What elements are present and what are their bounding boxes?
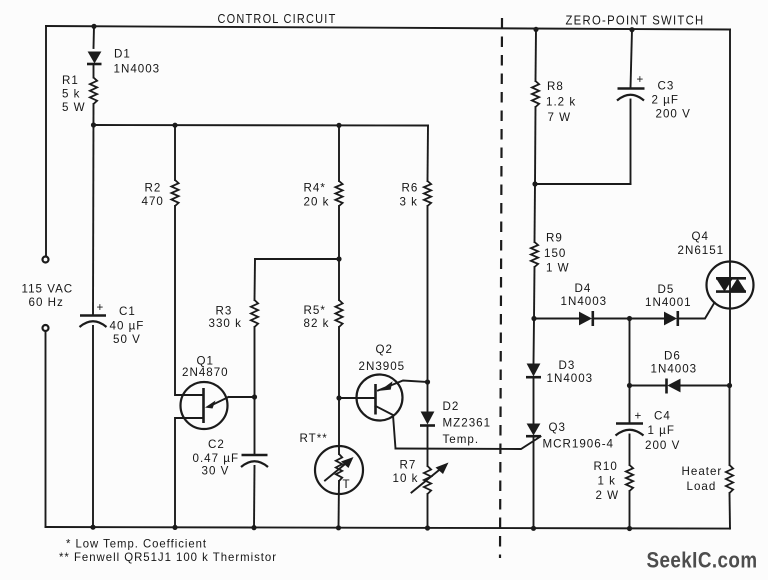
junction Q2 emitter node [425,379,430,384]
wire emitter node to D2 [427,382,429,411]
junction D4-D5 node [627,316,632,321]
junction mid rail R2 [172,123,177,128]
svg-text:10 k: 10 k [393,472,419,485]
wire R10 to bottom rail [629,491,631,529]
resistor R6 [424,181,431,206]
resistor R3 [251,300,258,327]
svg-text:1 k: 1 k [598,475,616,488]
wire node to R9 [534,184,537,242]
svg-text:R1: R1 [62,74,79,87]
svg-text:MCR1906-4: MCR1906-4 [543,438,615,451]
svg-text:330 k: 330 k [209,317,242,330]
wire R6 branch upper [427,126,430,182]
wire R6 to emitter node [427,206,429,382]
wire base node to RT [338,398,340,454]
wire C3 branch top [631,30,633,88]
capacitor C3 [617,73,645,101]
junction D4 anode node [531,316,536,321]
wire D6 cathode link [630,385,667,387]
wire D2 to R7 [427,426,429,467]
svg-text:2N3905: 2N3905 [359,360,406,373]
resistor R5 [335,300,342,327]
dashed separator line [500,18,502,558]
wire C2 to bottom rail [253,466,256,528]
resistor heater load [726,465,733,493]
svg-text:200 V: 200 V [656,108,691,121]
svg-text:R8: R8 [547,80,564,93]
svg-text:SeekIC.com: SeekIC.com [647,548,758,573]
wire R1 to C1 [92,104,95,315]
wire D3 anode [533,319,536,364]
wire R7 to bottom rail [427,494,429,528]
junction Q2 base node [336,395,341,400]
junction bottom rail C1 [90,525,95,530]
svg-text:* Low Temp. Coefficient: * Low Temp. Coefficient [66,538,207,551]
svg-text:C1: C1 [119,305,136,318]
svg-text:1 W: 1 W [546,262,570,275]
junction R8-C3 node [532,181,537,186]
resistor R7 variable [412,463,449,495]
junction D6 cathode node [627,383,632,388]
thyristor Q3 [396,424,542,450]
junction bottom rail R7 [425,525,430,530]
capacitor C1 [80,301,107,327]
svg-text:ZERO-POINT SWITCH: ZERO-POINT SWITCH [566,14,705,28]
svg-text:MZ2361: MZ2361 [443,417,492,430]
junction bottom rail RT [336,525,341,530]
svg-text:1N4003: 1N4003 [114,63,161,76]
svg-text:Q4: Q4 [692,230,709,243]
svg-text:30 V: 30 V [202,465,230,478]
svg-text:3 k: 3 k [400,196,418,209]
junction top rail R8 [533,27,538,32]
wire left rail upper [45,26,47,256]
svg-text:R4*: R4* [304,182,326,195]
diode D2 [420,412,435,426]
wire left rail lower [45,331,47,527]
svg-text:2 µF: 2 µF [652,94,679,107]
svg-text:R9: R9 [546,232,563,245]
svg-text:1N4003: 1N4003 [547,372,594,385]
wire D6 node to heater load [729,386,731,466]
wire R3 branch upper [254,259,257,300]
wire D4 node to D6 node [629,319,631,386]
junction bottom rail C2 [251,525,256,530]
svg-text:60 Hz: 60 Hz [29,296,64,309]
transistor Q1 [181,382,229,429]
svg-text:2N6151: 2N6151 [678,244,725,257]
wire right rail upper [729,30,731,386]
svg-text:+: + [637,73,645,86]
junction bottom rail Q3 [531,526,536,531]
wire emitter node to C2 [254,397,256,455]
wire D4 to D5 [593,318,664,320]
wire C3 link [535,183,631,185]
junction bottom rail Q1 [172,525,177,530]
junction mid rail R4 [336,123,341,128]
capacitor C4 [616,410,644,436]
wire C1 to bottom rail [92,326,94,528]
resistor R8 [532,81,539,107]
diode D4 [579,311,593,326]
svg-text:40 µF: 40 µF [110,320,145,333]
svg-text:Load: Load [687,480,717,493]
resistor R10 [626,465,633,491]
wire D1 branch top [93,26,96,48]
wire C3 to node link [630,100,632,185]
svg-text:C3: C3 [658,80,675,93]
wire D6 anode to right rail [681,385,730,387]
wire R3 top link [255,258,339,260]
svg-text:T: T [343,478,351,491]
svg-text:R10: R10 [594,460,618,473]
svg-text:Q3: Q3 [549,421,566,434]
junction Q1 emitter node [252,394,257,399]
svg-text:R2: R2 [145,182,162,195]
wire R4 to R5 [338,206,340,300]
resistor R2 [171,180,178,206]
transistor Q2 [357,375,428,449]
wire bottom rail [46,527,731,529]
svg-text:82 k: 82 k [304,317,330,330]
wire R4 branch upper [338,125,340,181]
svg-text:20 k: 20 k [304,196,330,209]
svg-text:+: + [97,301,105,314]
terminal upper (115 VAC) [43,257,49,263]
svg-text:0.47 µF: 0.47 µF [193,452,240,465]
svg-text:470: 470 [142,195,164,208]
svg-text:D4: D4 [575,282,592,295]
svg-text:1N4003: 1N4003 [651,363,698,376]
svg-text:5 k: 5 k [62,88,80,101]
svg-text:7 W: 7 W [548,111,572,124]
svg-text:D1: D1 [114,48,131,61]
triac Q4 [707,262,754,309]
wire D5 to Q4 gate [678,303,715,319]
resistor R1 [90,78,97,105]
junction D6 anode node [727,383,732,388]
svg-text:Temp.: Temp. [443,433,480,446]
wire R9 to D4 node [533,267,536,319]
svg-text:D2: D2 [443,400,460,413]
wire R8 to node [534,107,537,184]
wire Q1 base1 to bottom rail [175,418,203,528]
junction top rail C3 [629,27,634,32]
resistor R9 [531,242,538,267]
wire D3 to Q3 [533,377,535,423]
wire mid rail [94,124,429,127]
svg-text:200 V: 200 V [645,439,680,452]
svg-text:R6: R6 [402,182,419,195]
resistor R4 [335,181,342,206]
diode D3 [526,364,541,378]
svg-text:D5: D5 [658,283,675,296]
wire R5 to Q2 base node [338,327,340,398]
svg-text:115 VAC: 115 VAC [22,283,74,296]
wire R2 to Q1 base2 [175,206,203,395]
wire top rail [46,26,730,30]
wire R2 branch upper [174,125,176,180]
svg-text:+: + [635,410,643,423]
svg-text:Q2: Q2 [376,343,393,356]
wire Q3 cathode to bottom rail [533,436,535,528]
svg-text:1 µF: 1 µF [648,424,675,437]
svg-text:2N4870: 2N4870 [182,366,229,379]
diode D5 [664,311,678,326]
wire D4 anode [534,318,579,320]
diode D6 [667,379,681,394]
wire R8 branch upper [535,30,538,82]
svg-text:D3: D3 [559,359,576,372]
svg-text:5 W: 5 W [62,101,86,114]
svg-text:C2: C2 [208,438,225,451]
svg-text:C4: C4 [654,410,671,423]
wire Q2 base lead [339,397,376,399]
wire C4 to R10 [629,435,631,466]
capacitor C2 [241,455,268,467]
wire RT to bottom rail [338,481,341,528]
svg-text:1N4001: 1N4001 [645,296,692,309]
junction top rail D1 [91,24,96,29]
wire heater load to bottom rail [729,493,732,529]
svg-text:50 V: 50 V [113,333,141,346]
svg-text:D6: D6 [664,350,681,363]
diode D1 [87,52,102,65]
svg-text:CONTROL CIRCUIT: CONTROL CIRCUIT [218,12,337,26]
svg-text:R7: R7 [400,459,417,472]
svg-text:RT**: RT** [300,432,328,445]
wire R3 to Q1 emitter node [229,327,255,397]
svg-text:Heater: Heater [682,465,723,478]
svg-text:150: 150 [544,247,566,260]
svg-text:2 W: 2 W [596,489,620,502]
terminal lower (115 VAC) [43,325,49,331]
svg-text:1N4003: 1N4003 [561,295,608,308]
wire D1 to R1 [93,64,95,78]
svg-text:R3: R3 [216,305,233,318]
svg-text:R5*: R5* [304,304,326,317]
junction mid rail R1 [91,122,96,127]
svg-text:1.2 k: 1.2 k [546,96,576,109]
junction R4-R3 link [336,256,341,261]
wire D6 node to C4 [629,386,631,424]
thermistor RT [315,446,363,494]
svg-text:** Fenwell QR51J1 100 k Thermi: ** Fenwell QR51J1 100 k Thermistor [59,551,277,564]
junction bottom rail R10 [627,526,632,531]
